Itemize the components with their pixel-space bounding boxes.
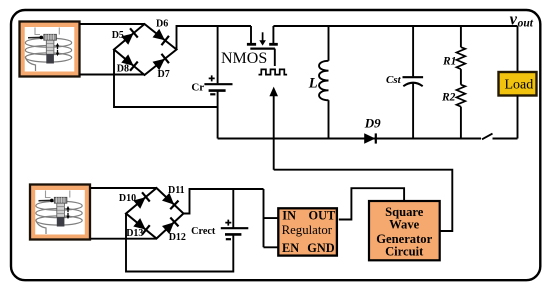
svg-text:out: out [518,17,534,29]
wire: switch to load bottom [493,138,518,140]
Load box [499,72,537,96]
wire: coil top to bridge1 top node [80,23,145,25]
svg-text:D8: D8 [117,64,129,75]
capacitor Cst straight plate [403,76,424,78]
bottom rail of resonant stage [218,138,481,140]
capacitor Cst curved plate [403,83,422,87]
svg-text:D5: D5 [112,30,124,41]
bridge rectifier 2 diamond [126,188,184,239]
gate drive wire with up arrow from square wave generator [273,96,275,170]
NMOS source wire [272,26,274,43]
capacitor Cst bottom wire [412,83,414,139]
svg-text:Wave: Wave [389,218,419,232]
transistor U1 NMOS drain wire [250,26,252,43]
capacitor Cr plates [204,83,232,85]
svg-text:Cst: Cst [386,74,402,86]
diode D11 [162,192,179,209]
svg-text:Circuit: Circuit [385,245,424,259]
svg-text:D13: D13 [126,228,143,239]
svg-text:IN: IN [282,209,296,223]
wire between R1 and R2 [460,69,462,85]
diode D7 [152,54,169,71]
svg-text:GND: GND [307,241,334,255]
svg-text:Load: Load [505,78,534,93]
wire: Load bottom down [517,96,519,139]
svg-text:L: L [308,75,318,91]
diode D8 [121,54,138,71]
switch blade [482,134,493,140]
receive coil picture (bottom) [30,185,90,240]
wire: coil2 top to bridge2 top node [91,187,157,189]
wire: generator output to gate drive riser [274,170,453,231]
wire: coil bottom to bridge1 bottom node [80,74,145,76]
svg-text:EN: EN [282,241,299,255]
gate square wave glyph [259,69,288,74]
wire: bridge1 right node up to top rail [177,26,252,50]
svg-text:R2: R2 [441,91,456,103]
NMOS drain bar [247,43,256,46]
bridge rectifier 1 diamond [114,24,177,75]
Square Wave Generator box [369,201,440,260]
capacitor Cr plus sign [209,75,215,81]
inductor L bottom wire [328,100,330,138]
svg-text:Regulator: Regulator [282,223,333,237]
svg-text:v: v [510,10,518,29]
capacitor Crect plus sign [225,220,231,226]
wire: Cr bottom to bottom rail [217,91,219,139]
capacitor Cr wire top [217,26,219,83]
top rail from source to load [273,25,517,27]
resistor R2 bottom wire [460,107,462,139]
svg-text:Cr: Cr [191,82,204,94]
wire: rail drop to regulator IN and EN [264,189,279,247]
capacitor Crect plates [221,227,249,229]
svg-text:D11: D11 [168,185,185,196]
diode D12 [162,218,179,235]
capacitor Crect minus sign [226,238,231,240]
svg-text:Crect: Crect [191,226,216,237]
inductor L coil [319,61,328,100]
diode D10 [133,192,150,209]
diode D9 [364,133,376,144]
svg-text:D7: D7 [158,69,170,80]
wire: bridge2 right node up to DC rail [184,189,264,214]
NMOS channel arrow [262,32,264,40]
wire: bridge2 left node down, right, up to Crect bottom [126,214,233,272]
svg-text:D9: D9 [364,116,381,131]
svg-text:OUT: OUT [309,209,336,223]
resistor R1 zigzag [457,47,466,69]
svg-text:D12: D12 [169,232,186,243]
svg-text:D6: D6 [156,19,168,30]
capacitor Cst top wire [412,26,414,76]
Regulator box [278,208,337,255]
diode D6 [152,28,169,45]
diode D13 [133,218,150,235]
inductor L top wire [328,26,330,61]
svg-text:NMOS: NMOS [221,50,267,67]
transmit coil picture (top) [20,22,80,77]
wire: rail down to Load [517,26,519,72]
svg-text:Square: Square [385,205,424,219]
NMOS source bar [269,43,278,46]
diode D5 [121,28,138,45]
capacitor Cr minus sign [210,93,215,95]
wire: bridge1 left node down and right to Cr bottom [114,50,218,108]
NMOS gate drop wire [274,49,276,66]
NMOS gate line [250,47,275,49]
svg-text:R1: R1 [442,55,456,67]
resistor R2 zigzag [457,85,466,107]
resistor R1 top wire [460,26,462,47]
svg-text:D10: D10 [119,193,136,204]
capacitor Crect top wire [232,189,234,228]
wire: coil2 bottom to bridge2 bottom node [91,238,157,240]
wire: regulator OUT to square wave generator top [339,188,404,219]
